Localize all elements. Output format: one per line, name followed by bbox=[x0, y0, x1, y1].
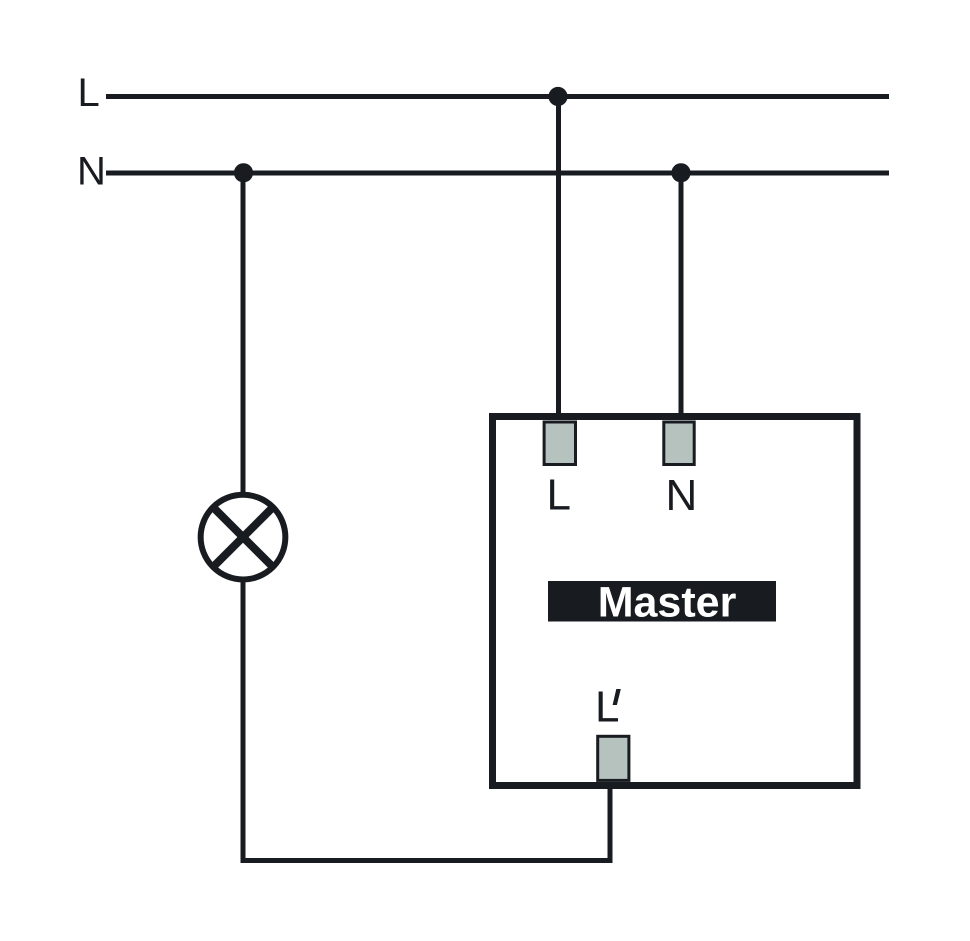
terminal L (top left of device) bbox=[544, 422, 575, 465]
wire riser up to terminal L' bbox=[608, 780, 613, 863]
lamp (circle with cross) bbox=[201, 495, 286, 580]
wire L bus down to terminal L bbox=[556, 96, 561, 424]
svg-text:N: N bbox=[666, 471, 698, 520]
wire L bus (horizontal) bbox=[106, 94, 889, 99]
wire N bus down to terminal N bbox=[679, 172, 684, 424]
svg-text:N: N bbox=[77, 150, 106, 194]
master device box bbox=[493, 417, 858, 786]
pin label L' bbox=[595, 683, 621, 732]
svg-text:L: L bbox=[595, 683, 619, 732]
junction on N bus at device branch bbox=[671, 163, 690, 182]
junction on L bus at device branch bbox=[548, 87, 567, 106]
wire N bus (horizontal) bbox=[106, 171, 889, 176]
terminal N (top right of device) bbox=[664, 422, 694, 465]
svg-text:L: L bbox=[547, 471, 571, 520]
device name plate bbox=[548, 581, 776, 622]
terminal L' (bottom of device) bbox=[598, 736, 629, 780]
wire lamp down to bottom run bbox=[241, 578, 246, 863]
svg-text:Master: Master bbox=[598, 579, 737, 627]
junction on N bus at lamp branch bbox=[234, 163, 253, 182]
svg-text:L: L bbox=[78, 71, 100, 115]
wire bottom horizontal run bbox=[241, 858, 613, 863]
wire N bus down to lamp bbox=[241, 172, 246, 496]
